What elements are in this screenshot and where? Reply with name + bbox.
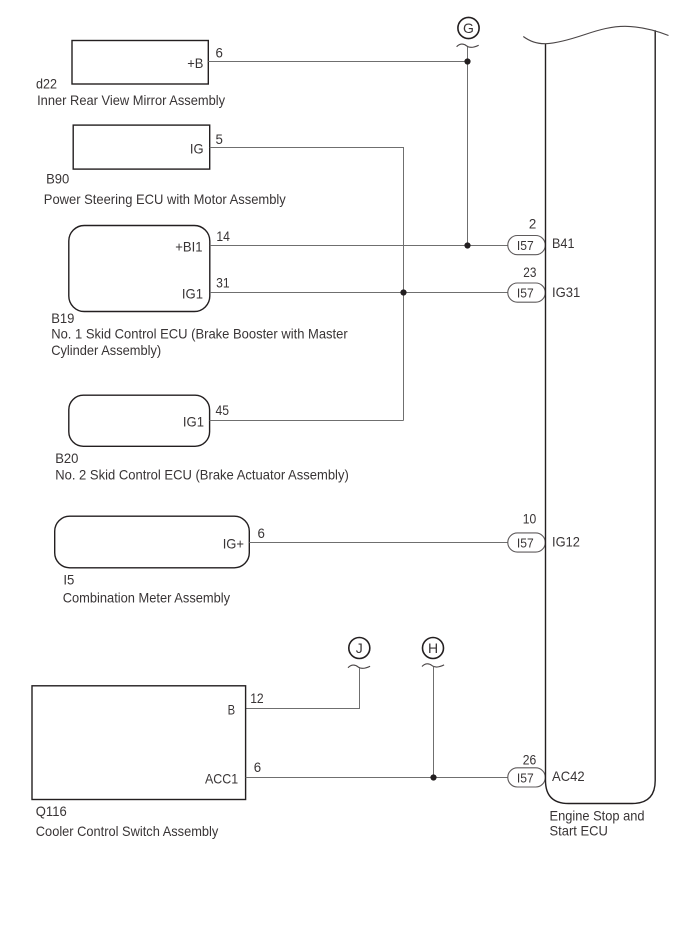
- svg-text:10: 10: [523, 510, 537, 526]
- wire J down and left to Q116 B: [246, 668, 360, 709]
- svg-text:23: 23: [523, 264, 536, 280]
- break squiggle under G: [457, 44, 479, 47]
- svg-text:B41: B41: [552, 235, 575, 251]
- svg-text:14: 14: [216, 228, 230, 244]
- svg-text:H: H: [428, 640, 438, 656]
- svg-text:B90: B90: [46, 171, 69, 187]
- junction dot at G line row3: [464, 242, 470, 248]
- wire G vertical: [467, 47, 469, 246]
- connector I57 IG31 pin 23: [508, 264, 581, 302]
- svg-text:IG12: IG12: [552, 534, 580, 550]
- svg-text:Cylinder Assembly): Cylinder Assembly): [51, 342, 161, 358]
- svg-text:Engine Stop and: Engine Stop and: [550, 808, 645, 824]
- svg-text:IG: IG: [190, 141, 204, 157]
- svg-text:I57: I57: [517, 238, 534, 253]
- wire B90 IG horizontal then down to B20: [210, 148, 404, 421]
- svg-text:6: 6: [258, 525, 266, 541]
- svg-text:B19: B19: [51, 310, 74, 326]
- svg-text:Start ECU: Start ECU: [550, 822, 608, 838]
- component B20 No.2 Skid Control ECU: [55, 395, 349, 482]
- svg-text:IG1: IG1: [183, 414, 204, 430]
- junction dot at IG line row4: [400, 289, 406, 295]
- component Engine Stop and Start ECU (torn-top tall box): [523, 26, 668, 838]
- svg-text:45: 45: [216, 402, 230, 418]
- svg-text:No. 1 Skid Control ECU (Brake: No. 1 Skid Control ECU (Brake Booster wi…: [51, 326, 348, 342]
- svg-text:B20: B20: [55, 450, 78, 466]
- svg-text:No. 2 Skid Control ECU (Brake: No. 2 Skid Control ECU (Brake Actuator A…: [55, 467, 349, 483]
- svg-text:+BI1: +BI1: [175, 239, 202, 255]
- svg-text:26: 26: [523, 752, 537, 768]
- break squiggle under J: [348, 665, 370, 668]
- wire B19 +BI1 to I57 B41: [210, 245, 508, 247]
- svg-text:Power Steering ECU with Motor: Power Steering ECU with Motor Assembly: [44, 191, 286, 207]
- svg-text:J: J: [356, 640, 363, 656]
- svg-text:Inner Rear View Mirror Assembl: Inner Rear View Mirror Assembly: [37, 92, 225, 108]
- svg-text:IG+: IG+: [223, 536, 244, 552]
- wire I5 IG+ to I57 IG12: [249, 542, 508, 544]
- wire d22 +B to G line: [208, 61, 467, 63]
- wire Q116 ACC1 to I57 AC42: [246, 777, 508, 779]
- wire H vertical to ACC1 wire: [433, 667, 435, 778]
- svg-text:B: B: [228, 702, 236, 718]
- connector I57 IG12 pin 10: [508, 510, 580, 552]
- svg-text:12: 12: [250, 690, 264, 706]
- svg-text:G: G: [463, 20, 474, 36]
- svg-text:2: 2: [529, 215, 537, 231]
- svg-text:I57: I57: [517, 536, 534, 551]
- svg-text:6: 6: [254, 759, 262, 775]
- wire B20 IG1 to vertical junction: [210, 420, 404, 422]
- svg-text:I57: I57: [517, 770, 534, 785]
- svg-text:d22: d22: [36, 76, 57, 92]
- svg-text:IG1: IG1: [182, 286, 203, 302]
- connector I57 B41 pin 2: [508, 215, 575, 254]
- svg-text:5: 5: [216, 131, 224, 147]
- component B19 No.1 Skid Control ECU: [51, 226, 348, 359]
- svg-text:Q116: Q116: [36, 803, 67, 819]
- svg-text:31: 31: [216, 275, 230, 291]
- break squiggle under H: [422, 664, 444, 667]
- svg-text:Combination Meter Assembly: Combination Meter Assembly: [63, 590, 230, 606]
- svg-text:I57: I57: [517, 286, 534, 301]
- svg-text:AC42: AC42: [552, 768, 585, 784]
- junction dot at H line on ACC1 wire: [430, 774, 436, 780]
- component B90 Power Steering ECU with Motor Assembly: [44, 125, 286, 207]
- connector circle G: [458, 17, 479, 38]
- connector I57 AC42 pin 26: [508, 752, 585, 787]
- svg-text:IG31: IG31: [552, 284, 580, 300]
- svg-text:+B: +B: [187, 55, 203, 71]
- component d22 Inner Rear View Mirror Assembly: [36, 41, 225, 109]
- component Q116 Cooler Control Switch Assembly: [32, 686, 246, 839]
- svg-text:ACC1: ACC1: [205, 771, 238, 787]
- wire B19 IG1 to I57 IG31: [210, 292, 508, 294]
- connector circle H: [423, 638, 444, 659]
- svg-text:I5: I5: [63, 572, 74, 588]
- junction dot at G line row1: [464, 58, 470, 64]
- connector circle J: [349, 638, 370, 659]
- component I5 Combination Meter Assembly: [55, 516, 250, 605]
- svg-text:Cooler Control Switch Assembly: Cooler Control Switch Assembly: [36, 823, 219, 839]
- svg-text:6: 6: [216, 45, 224, 61]
